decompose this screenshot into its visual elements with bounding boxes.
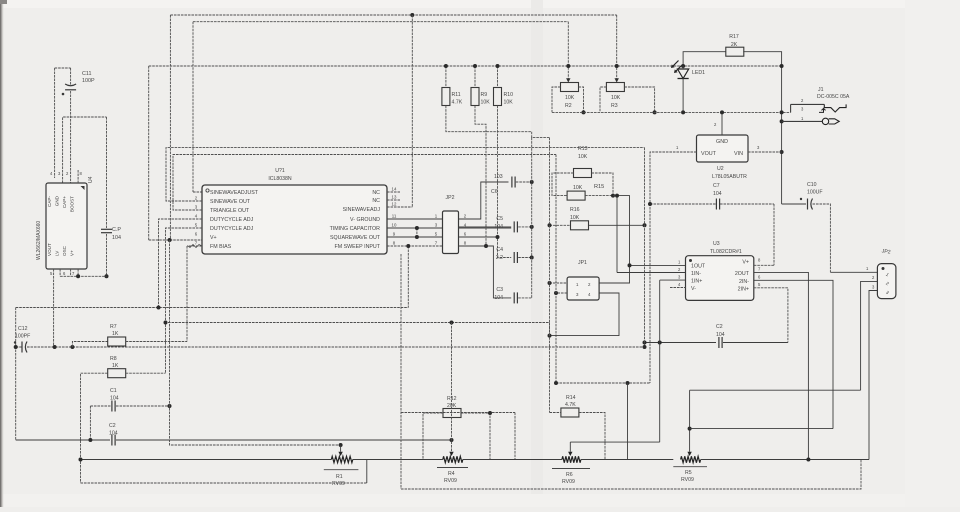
wire (617, 272, 686, 274)
junction (168, 238, 172, 242)
pin numbers (866, 266, 875, 290)
wire (461, 413, 490, 460)
junction (157, 306, 161, 310)
capacitor C6 (491, 174, 515, 195)
wire gnd rail bottom (16, 346, 22, 348)
wire (474, 66, 476, 88)
svg-text:14: 14 (392, 187, 397, 192)
wire (77, 269, 79, 276)
svg-text:C3: C3 (496, 287, 503, 293)
svg-text:DC-005C 05A: DC-005C 05A (817, 94, 850, 100)
junction (450, 438, 454, 442)
svg-text:R14: R14 (566, 395, 576, 401)
svg-text:VIN: VIN (734, 151, 743, 157)
wire (723, 342, 788, 344)
wire (416, 228, 418, 237)
capacitor C4 (496, 247, 518, 263)
wire pin4 (159, 219, 203, 308)
wire (550, 282, 568, 284)
svg-text:JP2: JP2 (881, 248, 891, 255)
wire pin7 (187, 245, 202, 248)
svg-text:C5: C5 (496, 216, 503, 222)
svg-text:1IN-: 1IN- (691, 271, 701, 277)
wire (475, 106, 486, 246)
svg-text:ICL8038N: ICL8038N (268, 176, 292, 182)
svg-text:10K: 10K (573, 185, 583, 191)
plug tip (822, 118, 839, 124)
svg-text:104: 104 (713, 191, 722, 197)
svg-text:R1: R1 (336, 474, 343, 480)
wire (193, 21, 568, 23)
wire (148, 66, 150, 240)
junction (53, 345, 57, 349)
wire long vert (644, 148, 646, 347)
wire (592, 173, 614, 196)
wire pin3 (173, 155, 556, 211)
wire pin5 (166, 228, 203, 373)
svg-text:104: 104 (109, 431, 118, 437)
resistor R17 (726, 34, 744, 56)
wire (54, 68, 56, 178)
wire pin11 (387, 218, 443, 220)
potentiometer R6 (552, 456, 590, 485)
svg-text:R3: R3 (611, 103, 618, 109)
junction (548, 281, 552, 285)
wire (556, 293, 567, 383)
svg-text:V+: V+ (70, 250, 75, 256)
capacitor C2 (716, 324, 725, 348)
junction (780, 119, 784, 123)
wire (63, 117, 107, 183)
wire (353, 460, 367, 484)
wire (353, 459, 443, 461)
wire (78, 170, 82, 183)
wire (518, 257, 532, 259)
junction (548, 223, 552, 227)
resistor R15 (567, 184, 604, 200)
wire (498, 106, 512, 258)
wire (15, 308, 17, 441)
wiper (449, 452, 453, 456)
svg-text:CAP-: CAP- (47, 196, 52, 207)
resistor R14 (561, 395, 579, 417)
svg-text:2.2: 2.2 (496, 255, 503, 261)
wire (616, 196, 618, 273)
junction (688, 427, 692, 431)
svg-text:C6: C6 (491, 189, 498, 195)
resistor R7 (108, 324, 126, 346)
junction (484, 244, 488, 248)
wire (445, 66, 447, 88)
wire (166, 323, 550, 336)
connector JP2b (877, 248, 896, 298)
junction (780, 110, 784, 114)
svg-text:SQUAREWAVE OUT: SQUAREWAVE OUT (330, 235, 381, 241)
wire R6 wiper line (570, 441, 659, 443)
svg-text:C1: C1 (110, 388, 117, 394)
capacitor C3 (494, 287, 517, 303)
junction (626, 381, 630, 385)
svg-text:R11: R11 (452, 92, 461, 98)
svg-text:C2: C2 (716, 324, 723, 330)
capacitor C5 (494, 216, 517, 232)
svg-text:4.7K: 4.7K (565, 402, 576, 408)
wiper (687, 390, 691, 456)
wire 2IN- (754, 280, 833, 428)
wire (459, 236, 498, 238)
svg-text:R5: R5 (685, 470, 692, 476)
wire (149, 239, 202, 241)
wire (16, 439, 110, 441)
svg-text:1K: 1K (112, 331, 119, 337)
wire (556, 382, 650, 384)
svg-text:R13: R13 (578, 146, 588, 152)
svg-text:103: 103 (494, 174, 503, 180)
wire (782, 120, 822, 122)
wire C2 line (645, 342, 717, 344)
wire (401, 412, 515, 414)
resistor R9 (471, 88, 490, 106)
connector JP1 (567, 260, 599, 300)
junction (415, 235, 419, 239)
wire (423, 413, 443, 460)
op-amp U2 (697, 135, 749, 180)
wire (567, 22, 569, 79)
wire (743, 52, 781, 204)
junction (582, 110, 586, 114)
svg-text:FM SWEEP INPUT: FM SWEEP INPUT (334, 244, 380, 250)
potentiometer R3 (606, 83, 624, 110)
wire x549 vert (549, 138, 551, 413)
svg-text:2IN+: 2IN+ (738, 287, 749, 293)
svg-text:CAP+: CAP+ (62, 196, 67, 208)
potentiometer R1 (324, 456, 359, 487)
junction (473, 64, 477, 68)
wire 1IN+ drop (659, 280, 661, 442)
svg-text:100P: 100P (82, 78, 95, 84)
wire pin9 (387, 236, 443, 238)
svg-text:JP2: JP2 (446, 195, 455, 201)
svg-text:J1: J1 (818, 87, 824, 93)
junction (530, 180, 534, 184)
wire (861, 281, 878, 390)
capacitor C7 (713, 183, 722, 210)
svg-text:13: 13 (392, 195, 397, 200)
wire (90, 405, 111, 407)
potentiometer R5 (673, 456, 707, 483)
junction (720, 110, 724, 114)
wire R5 wiper line (690, 389, 861, 391)
svg-text:R17: R17 (729, 34, 739, 40)
pin numbers (50, 171, 69, 176)
wire (550, 293, 620, 336)
wire (70, 91, 72, 183)
wire (70, 68, 72, 86)
wire (186, 246, 188, 342)
resistor R8 (108, 356, 126, 378)
svg-text:RV09: RV09 (681, 477, 694, 483)
svg-text:10K: 10K (578, 154, 588, 160)
resistor R16 (570, 207, 589, 230)
wire (27, 346, 645, 348)
svg-text:V+: V+ (210, 235, 217, 241)
junction (70, 345, 74, 349)
wire (813, 204, 831, 272)
wire (459, 246, 512, 298)
capacitor C1 (110, 388, 119, 412)
wire (650, 203, 716, 205)
wire (748, 151, 782, 153)
svg-text:U2: U2 (717, 166, 724, 172)
svg-text:1IN+: 1IN+ (691, 279, 702, 285)
wire (518, 226, 532, 228)
wire pin12 (387, 206, 412, 208)
wire (830, 271, 877, 273)
svg-text:C10: C10 (807, 182, 817, 188)
svg-text:2K: 2K (731, 42, 738, 48)
capacitor C10 (800, 182, 823, 210)
junction (76, 274, 80, 278)
wire (552, 87, 561, 112)
wire (106, 234, 108, 276)
svg-text:10K: 10K (570, 215, 580, 221)
svg-text:GND: GND (716, 139, 728, 145)
wire pin10 (387, 227, 443, 229)
wire (628, 383, 674, 460)
wire R4 wiper (451, 323, 453, 456)
op-amp U1 (202, 168, 387, 254)
wire (579, 87, 584, 112)
wire (81, 482, 367, 484)
wire (624, 87, 654, 112)
junction (530, 225, 534, 229)
wire (16, 307, 409, 309)
wire 2IN+ (754, 288, 788, 343)
wire (116, 439, 452, 441)
junction (530, 256, 534, 260)
pin numbers (676, 122, 760, 150)
potentiometer R2 (561, 83, 579, 110)
pin numbers (195, 196, 198, 246)
svg-text:104: 104 (716, 332, 725, 338)
wire x556 vert (555, 155, 557, 294)
svg-text:10K: 10K (611, 95, 621, 101)
svg-text:VOUT: VOUT (47, 243, 52, 256)
wire cap column (531, 138, 533, 298)
svg-text:R2: R2 (565, 103, 572, 109)
wire (407, 246, 409, 308)
svg-text:U4: U4 (88, 176, 94, 183)
svg-text:SINEWAVEADJ: SINEWAVEADJ (343, 207, 381, 213)
wire (550, 412, 561, 414)
junction (780, 150, 784, 154)
wire pin13 (387, 199, 400, 201)
svg-text:104: 104 (494, 295, 503, 301)
capacitor C2b (109, 423, 118, 446)
svg-text:C7: C7 (713, 183, 720, 189)
junction (79, 458, 83, 462)
svg-text:R15: R15 (594, 184, 604, 190)
wire (782, 203, 806, 205)
capacitor C12 (14, 326, 30, 353)
wire (60, 275, 106, 277)
wire (532, 132, 550, 138)
wire (552, 173, 574, 196)
svg-text:U3: U3 (713, 241, 720, 247)
svg-text:LED1: LED1 (692, 70, 705, 76)
connector J1 (791, 87, 850, 121)
svg-text:1K: 1K (112, 363, 119, 369)
LED LED1 (671, 61, 705, 79)
wire (459, 227, 512, 229)
junction (566, 64, 570, 68)
svg-text:C2: C2 (109, 423, 116, 429)
svg-text:TIMING CAPACITOR: TIMING CAPACITOR (330, 226, 381, 232)
svg-text:DUTYCYCLE ADJ: DUTYCYCLE ADJ (210, 217, 254, 223)
wire (446, 106, 532, 132)
svg-text:L78L05ABUTR: L78L05ABUTR (712, 174, 747, 180)
wire 2OUT (754, 272, 809, 459)
svg-text:BOOST: BOOST (70, 196, 75, 212)
wire (683, 52, 726, 66)
wire (616, 15, 618, 79)
svg-text:OSC: OSC (62, 245, 67, 256)
svg-text:10K: 10K (504, 100, 514, 106)
svg-text:R16: R16 (570, 207, 580, 213)
wire (579, 413, 605, 460)
junction (14, 345, 18, 349)
svg-text:R8: R8 (110, 356, 117, 362)
wire (126, 372, 166, 374)
svg-text:TL082CDR#1: TL082CDR#1 (710, 249, 742, 255)
capacitor C19 (101, 227, 121, 241)
wire U1 bottom drop (400, 254, 402, 489)
wire (116, 405, 170, 407)
svg-text:WL2662/MAX660: WL2662/MAX660 (36, 221, 42, 260)
junction (648, 202, 652, 206)
junction (615, 194, 619, 198)
wire (459, 226, 512, 228)
svg-text:VOUT: VOUT (701, 151, 717, 157)
junction (164, 321, 168, 325)
wire (630, 264, 686, 266)
svg-text:R6: R6 (566, 472, 573, 478)
svg-text:R10: R10 (504, 92, 514, 98)
wire (701, 459, 869, 461)
junction (496, 235, 500, 239)
wire pin8 (387, 245, 443, 247)
junction (806, 458, 810, 462)
svg-text:R4: R4 (448, 471, 455, 477)
junction (88, 438, 92, 442)
junction (681, 64, 685, 68)
wire (682, 66, 684, 69)
wire (497, 66, 499, 88)
wire (126, 341, 187, 343)
resistor R10 (494, 88, 514, 106)
junction (780, 64, 784, 68)
junction (105, 274, 109, 278)
wire (869, 291, 877, 460)
wire pin14 (387, 191, 400, 193)
junction (415, 226, 419, 230)
wire (670, 287, 686, 289)
svg-text:JP1: JP1 (578, 260, 587, 266)
wire (192, 22, 194, 192)
svg-text:V- GROUND: V- GROUND (350, 217, 380, 223)
wire (585, 195, 613, 197)
pin numbers (678, 258, 761, 288)
svg-text:C11: C11 (82, 71, 92, 77)
pin numbers (392, 187, 397, 246)
svg-text:10: 10 (392, 223, 397, 228)
connector JP2 (435, 195, 467, 254)
junction (339, 443, 343, 447)
svg-text:10K: 10K (565, 95, 575, 101)
svg-text:R7: R7 (110, 324, 117, 330)
svg-text:SINEWAVE OUT: SINEWAVE OUT (210, 199, 251, 205)
svg-text:2OUT: 2OUT (735, 271, 750, 277)
wire (599, 196, 629, 283)
junction (554, 291, 558, 295)
wire (581, 459, 628, 461)
svg-text:C.P: C.P (112, 227, 121, 233)
svg-text:SINEWAVEADJUST: SINEWAVEADJUST (210, 190, 259, 196)
resistor R12 (443, 396, 461, 418)
wire (600, 87, 606, 112)
junction (450, 321, 454, 325)
wire (55, 67, 71, 69)
svg-text:C12: C12 (18, 326, 28, 332)
junction (410, 13, 414, 17)
wire (70, 269, 72, 276)
junction (406, 244, 410, 248)
wire xB vert (170, 240, 341, 445)
svg-text:RV09: RV09 (332, 481, 345, 487)
svg-text:C4: C4 (496, 247, 503, 253)
wire (411, 15, 413, 207)
wire pot rail (81, 459, 332, 461)
op-amp U4 (36, 176, 94, 269)
junction (643, 341, 647, 345)
wire (459, 182, 509, 219)
wire (89, 406, 91, 440)
junction (658, 341, 662, 345)
junction (615, 64, 619, 68)
svg-text:100PF: 100PF (15, 334, 30, 340)
wiper (566, 78, 570, 82)
potentiometer R4 (437, 456, 468, 484)
wiper (615, 78, 619, 82)
junction (628, 263, 632, 267)
junction (488, 411, 492, 415)
wire (59, 269, 61, 276)
svg-text:U?1: U?1 (275, 168, 285, 174)
svg-text:DUTYCYCLE ADJ: DUTYCYCLE ADJ (210, 226, 254, 232)
svg-text:RV09: RV09 (562, 479, 575, 485)
junction (444, 64, 448, 68)
wire (72, 342, 107, 348)
wire (106, 117, 108, 228)
wire big rect bottom (401, 460, 861, 490)
junction (681, 110, 685, 114)
wire pin1 (193, 191, 202, 193)
svg-text:100UF: 100UF (807, 190, 823, 196)
junction (643, 345, 647, 349)
wire (650, 152, 697, 383)
junction (554, 381, 558, 385)
svg-text:104: 104 (112, 235, 121, 241)
